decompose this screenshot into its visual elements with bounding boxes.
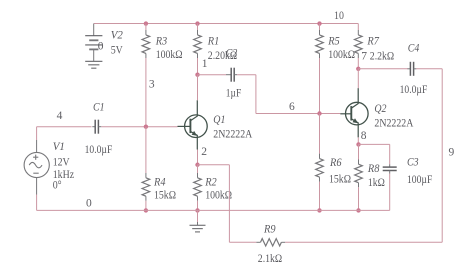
svg-text:Q2: Q2 xyxy=(374,103,386,115)
resistor R9 xyxy=(256,241,260,243)
svg-text:R5: R5 xyxy=(327,36,340,48)
junction top rail / R3 xyxy=(144,21,148,25)
ground below V2 xyxy=(85,60,102,62)
svg-text:1kΩ: 1kΩ xyxy=(368,177,385,189)
svg-text:C3: C3 xyxy=(407,157,419,169)
wire top rail node 10 xyxy=(94,23,359,25)
junction node 7 xyxy=(356,67,360,71)
svg-text:15kΩ: 15kΩ xyxy=(154,190,176,202)
resistor R7 xyxy=(357,24,359,30)
svg-text:V2: V2 xyxy=(111,29,123,41)
junction R8 rail xyxy=(356,208,360,212)
junction top rail / R5 xyxy=(317,21,321,25)
capacitor C2 xyxy=(226,74,231,76)
resistor R4 xyxy=(145,127,147,173)
wire node1 to C2 xyxy=(198,74,227,76)
wire node7 to C4 xyxy=(358,68,408,70)
wire V1 top xyxy=(36,127,38,140)
svg-text:9: 9 xyxy=(449,147,455,159)
wire Q1 emitter xyxy=(197,150,199,165)
svg-text:5V: 5V xyxy=(111,45,124,57)
svg-text:4: 4 xyxy=(57,110,63,122)
wire Q1 collector xyxy=(197,75,199,101)
junction node 6 xyxy=(317,111,321,115)
svg-text:2N2222A: 2N2222A xyxy=(374,118,414,130)
svg-text:100µF: 100µF xyxy=(407,174,432,186)
svg-text:C1: C1 xyxy=(93,102,105,114)
wire node 9 xyxy=(416,68,442,70)
source V1 xyxy=(24,152,49,177)
svg-text:R9: R9 xyxy=(263,223,276,235)
battery V2 xyxy=(85,35,102,37)
junction node 3 xyxy=(144,125,148,129)
svg-text:100kΩ: 100kΩ xyxy=(205,190,232,202)
svg-text:R2: R2 xyxy=(204,177,217,189)
svg-text:12V: 12V xyxy=(53,157,71,169)
resistor R6 xyxy=(319,114,321,154)
junction node 8 xyxy=(356,142,360,146)
wire V1 bottom xyxy=(36,178,38,195)
junction R2 rail xyxy=(195,208,199,212)
svg-text:1: 1 xyxy=(202,58,208,70)
junction node 1 xyxy=(195,73,199,77)
svg-text:2N2222A: 2N2222A xyxy=(213,129,253,141)
capacitor C4 xyxy=(408,68,411,70)
svg-text:10.0µF: 10.0µF xyxy=(85,144,113,156)
wire Q2 emitter xyxy=(357,137,359,144)
svg-text:15kΩ: 15kΩ xyxy=(329,173,351,185)
svg-text:10: 10 xyxy=(334,10,344,22)
svg-text:C4: C4 xyxy=(408,43,420,55)
svg-text:2.2kΩ: 2.2kΩ xyxy=(370,51,394,63)
wire node 3 xyxy=(145,58,147,127)
capacitor C3 xyxy=(389,144,391,164)
transistor Q2 xyxy=(346,102,369,125)
svg-text:0: 0 xyxy=(98,40,104,52)
resistor R1 xyxy=(197,24,199,30)
svg-text:8: 8 xyxy=(361,130,367,142)
junction top rail / R1 xyxy=(195,21,199,25)
svg-text:R8: R8 xyxy=(367,163,380,175)
svg-text:100kΩ: 100kΩ xyxy=(156,49,183,61)
svg-text:1µF: 1µF xyxy=(226,87,241,99)
svg-text:R4: R4 xyxy=(153,177,166,189)
svg-text:C2: C2 xyxy=(226,47,238,59)
wire bottom rail node 0 xyxy=(37,209,390,211)
svg-text:100kΩ: 100kΩ xyxy=(328,49,355,61)
svg-text:6: 6 xyxy=(289,101,295,113)
junction R4 rail xyxy=(144,208,148,212)
svg-text:R7: R7 xyxy=(367,36,381,48)
wire R1 to node 1 xyxy=(197,58,199,75)
svg-text:R3: R3 xyxy=(155,36,168,48)
svg-text:2: 2 xyxy=(201,146,207,158)
wire node 8 branch xyxy=(359,143,390,145)
wire node2 to R9 xyxy=(198,164,230,166)
svg-text:10.0µF: 10.0µF xyxy=(400,84,428,96)
svg-text:2.1kΩ: 2.1kΩ xyxy=(258,253,282,265)
resistor R8 xyxy=(358,144,360,159)
junction R6 rail xyxy=(317,208,321,212)
wire Q2 collector xyxy=(357,69,359,88)
svg-text:R1: R1 xyxy=(207,36,219,48)
svg-text:7: 7 xyxy=(361,51,367,63)
svg-text:3: 3 xyxy=(149,79,155,91)
transistor Q1 xyxy=(185,115,208,138)
ground below R2 xyxy=(197,210,199,222)
svg-text:Q1: Q1 xyxy=(213,114,225,126)
wire node 3 row xyxy=(101,126,177,128)
resistor R3 xyxy=(145,24,147,30)
wire R5 to node 6 xyxy=(319,58,321,114)
wire C2 to Q2 base node 6 xyxy=(237,74,256,76)
svg-text:R6: R6 xyxy=(329,157,342,169)
capacitor C1 xyxy=(92,126,95,128)
svg-text:V1: V1 xyxy=(53,141,65,153)
resistor R2 xyxy=(197,165,199,173)
svg-text:0°: 0° xyxy=(53,180,62,192)
svg-text:0: 0 xyxy=(86,198,92,210)
wire V2 to rail xyxy=(93,24,95,36)
junction node 2 xyxy=(195,163,199,167)
resistor R5 xyxy=(319,24,321,30)
wire node 4 xyxy=(37,126,92,128)
